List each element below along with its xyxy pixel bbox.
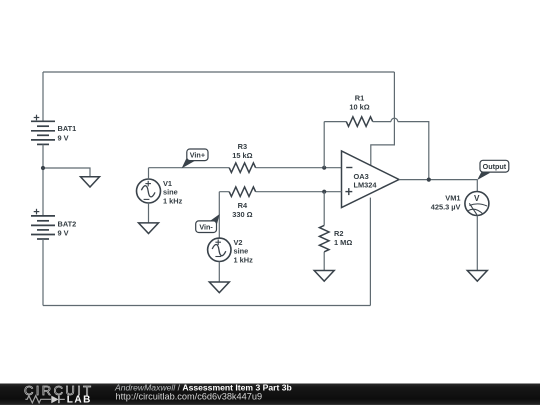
svg-text:V1: V1 [163, 179, 172, 188]
svg-text:1 kHz: 1 kHz [163, 196, 183, 205]
voltmeter VM1 [465, 192, 489, 216]
wire VM1 top lead [476, 180, 478, 192]
source V2 [208, 238, 231, 261]
wire ground tap [43, 168, 90, 177]
op-amp minus input symbol [346, 167, 352, 169]
svg-text:9 V: 9 V [58, 134, 69, 143]
wire V1 top lead [148, 168, 150, 179]
wire bottom rail [43, 305, 370, 307]
BAT2 plus sign [34, 209, 40, 215]
source V1 [137, 179, 161, 203]
logo resistor zigzag [25, 396, 51, 403]
svg-text:VM1: VM1 [445, 193, 460, 202]
svg-text:Output: Output [483, 162, 507, 171]
wire right power drop to op-amp V+ [371, 72, 395, 165]
svg-text:15 kΩ: 15 kΩ [232, 151, 252, 160]
flag Vin- [196, 214, 220, 233]
wire BAT1 top lead [42, 72, 44, 121]
wire op-amp V- pin [369, 198, 371, 306]
wire noninverting input [219, 191, 341, 193]
BAT1 plus sign [34, 115, 40, 121]
flag Vin+ [182, 149, 208, 168]
svg-text:LM324: LM324 [354, 181, 378, 190]
node junction R2/noninverting input [322, 190, 326, 194]
wire top rail [43, 71, 394, 73]
op-amp OA3 [342, 151, 400, 208]
node junction feedback/inverting input [322, 166, 326, 170]
logo diode symbol [51, 396, 58, 404]
flag Output [477, 160, 509, 180]
resistor R2 [319, 225, 329, 251]
svg-text:LAB: LAB [67, 394, 92, 405]
svg-text:BAT1: BAT1 [58, 124, 77, 133]
svg-text:330 Ω: 330 Ω [232, 210, 252, 219]
wire feedback vertical [323, 122, 325, 168]
svg-text:R4: R4 [238, 201, 248, 210]
wire VM1 bottom lead [476, 216, 478, 271]
wire R2 top lead [323, 192, 325, 226]
svg-text:sine: sine [163, 188, 178, 197]
svg-text:BAT2: BAT2 [58, 219, 77, 228]
op-amp plus input symbol [345, 188, 352, 195]
svg-text:sine: sine [234, 247, 249, 256]
svg-text:9 V: 9 V [58, 229, 69, 238]
node junction output/feedback [427, 178, 431, 182]
ground R2 [314, 271, 334, 282]
svg-text:R2: R2 [334, 229, 343, 238]
svg-text:1 kHz: 1 kHz [234, 255, 254, 264]
wire V2 vertical [218, 192, 220, 238]
wire V1 to inverting input [149, 167, 342, 169]
svg-text:1 MΩ: 1 MΩ [334, 238, 352, 247]
svg-text:OA3: OA3 [354, 172, 369, 181]
wire R1 left lead [324, 121, 346, 123]
svg-text:10 kΩ: 10 kΩ [349, 103, 369, 112]
wire R2 bottom lead [323, 252, 325, 271]
wire V2 bottom lead [218, 262, 220, 283]
wire V1 bottom lead [148, 203, 150, 223]
svg-text:Vin-: Vin- [199, 223, 213, 232]
node junction BAT1/BAT2/ground [41, 166, 45, 170]
svg-text:R3: R3 [238, 142, 247, 151]
svg-text:Vin+: Vin+ [190, 151, 205, 160]
battery BAT2 [31, 216, 55, 239]
ground VM1 [467, 271, 487, 282]
battery BAT1 [31, 121, 55, 144]
svg-text:V: V [474, 194, 480, 203]
svg-text:R1: R1 [355, 93, 364, 102]
svg-text:425.3 µV: 425.3 µV [431, 203, 461, 212]
wire BAT1 to BAT2 [42, 144, 44, 216]
resistor R3 [229, 163, 255, 173]
wire BAT2 bottom to bottom rail [42, 239, 44, 306]
svg-text:http://circuitlab.com/c6d6v38k: http://circuitlab.com/c6d6v38k447u9 [116, 391, 263, 401]
ground (main) [81, 177, 100, 187]
resistor R1 [346, 117, 372, 127]
ground V1 [139, 223, 159, 234]
wire op-amp output [399, 179, 477, 181]
wire R1 right lead with hop [373, 118, 429, 179]
resistor R4 [229, 187, 255, 197]
svg-text:V2: V2 [234, 238, 243, 247]
ground V2 [209, 282, 229, 293]
